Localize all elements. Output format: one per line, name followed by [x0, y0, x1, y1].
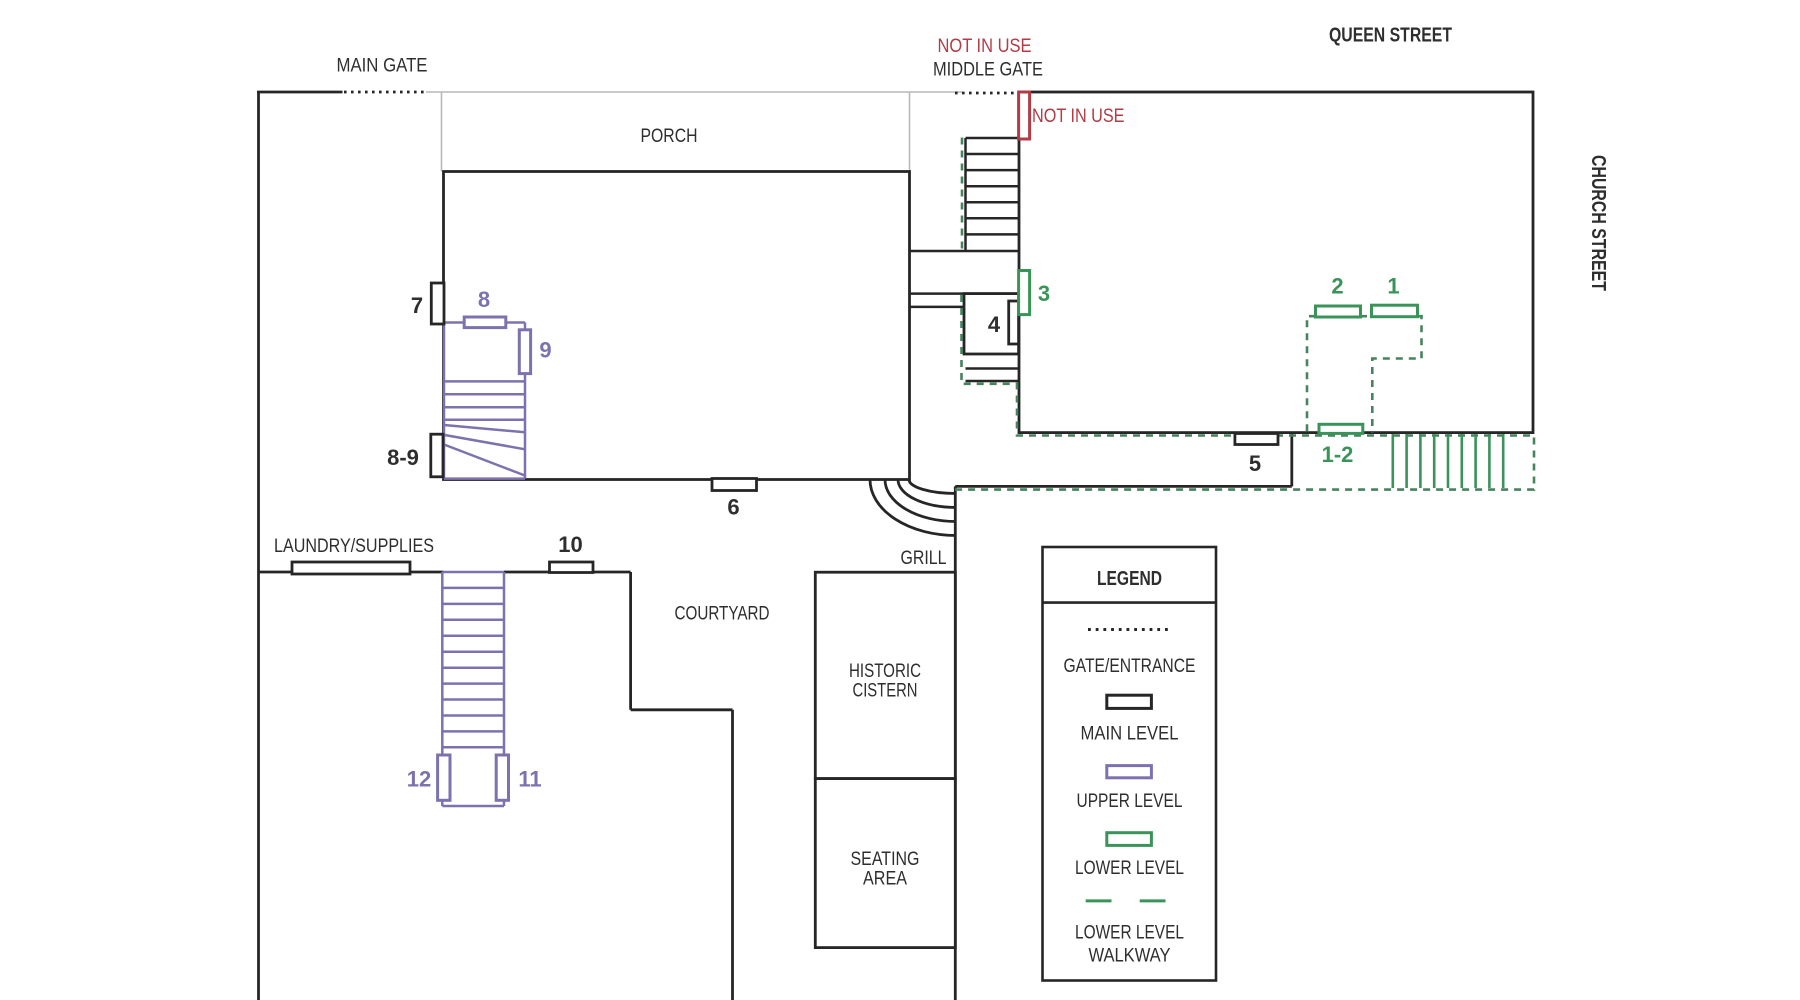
svg-text:1: 1 — [1387, 274, 1399, 299]
svg-text:10: 10 — [558, 532, 582, 557]
svg-text:CISTERN: CISTERN — [853, 681, 918, 702]
svg-text:PORCH: PORCH — [641, 126, 698, 147]
svg-text:9: 9 — [539, 338, 551, 363]
svg-text:7: 7 — [411, 293, 423, 318]
svg-text:WALKWAY: WALKWAY — [1089, 946, 1171, 967]
svg-text:5: 5 — [1249, 451, 1261, 476]
svg-text:LOWER LEVEL: LOWER LEVEL — [1075, 858, 1184, 879]
svg-text:NOT IN USE: NOT IN USE — [938, 36, 1032, 57]
svg-text:8-9: 8-9 — [387, 445, 419, 470]
svg-text:8: 8 — [478, 287, 490, 312]
svg-text:GRILL: GRILL — [901, 548, 947, 569]
svg-text:AREA: AREA — [863, 869, 907, 890]
svg-text:CHURCH STREET: CHURCH STREET — [1587, 155, 1609, 291]
svg-text:12: 12 — [407, 766, 431, 791]
svg-text:11: 11 — [518, 766, 541, 791]
svg-text:4: 4 — [988, 312, 1001, 337]
svg-text:MAIN LEVEL: MAIN LEVEL — [1081, 724, 1179, 745]
svg-text:GATE/ENTRANCE: GATE/ENTRANCE — [1064, 656, 1196, 677]
svg-text:QUEEN STREET: QUEEN STREET — [1329, 25, 1452, 47]
svg-text:LOWER LEVEL: LOWER LEVEL — [1075, 923, 1184, 944]
svg-text:COURTYARD: COURTYARD — [675, 604, 770, 625]
svg-text:2: 2 — [1331, 274, 1343, 299]
svg-text:UPPER LEVEL: UPPER LEVEL — [1077, 791, 1183, 812]
svg-text:MAIN GATE: MAIN GATE — [337, 55, 428, 76]
svg-text:HISTORIC: HISTORIC — [849, 661, 921, 682]
svg-text:6: 6 — [727, 494, 739, 519]
svg-text:MIDDLE GATE: MIDDLE GATE — [933, 60, 1043, 81]
svg-text:NOT IN USE: NOT IN USE — [1032, 106, 1125, 127]
svg-text:LEGEND: LEGEND — [1097, 568, 1162, 590]
svg-text:3: 3 — [1038, 281, 1050, 306]
svg-text:1-2: 1-2 — [1322, 442, 1354, 467]
svg-text:LAUNDRY/SUPPLIES: LAUNDRY/SUPPLIES — [274, 536, 434, 557]
svg-text:SEATING: SEATING — [851, 849, 920, 870]
